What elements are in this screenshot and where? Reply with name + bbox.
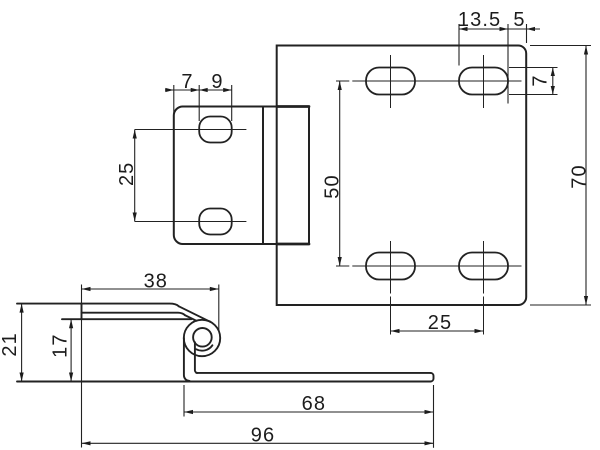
slot big plate top-left [366,68,415,95]
dim 13.5 ext left [458,24,460,66]
centerline big plate top slots horizontal [352,80,521,82]
arrow 70 top [584,46,588,55]
slot big plate bottom-right [459,253,508,280]
dim 70 ext bottom [530,304,591,306]
side bend diagonal middle [185,315,197,321]
curl stem outer line [184,338,190,381]
arrow 50 bottom [338,257,342,266]
dim 17 line [70,319,72,381]
arrow 13.5 left [459,27,468,31]
svg-text:9: 9 [211,71,223,93]
arrow 25 bottom left [391,329,400,333]
arrow 5 outside right [527,27,536,31]
curl outer circle [184,320,220,356]
dim 7-9 ext line left [173,85,175,113]
svg-text:13.5: 13.5 [458,9,501,31]
side strip left end cap [81,304,83,320]
centerline big plate bottom slots horizontal [352,265,521,267]
svg-text:70: 70 [568,164,590,188]
dim 50 line [339,81,341,266]
small plate top edge [183,106,309,108]
svg-text:7: 7 [529,74,551,86]
small plate outline [174,107,183,245]
side top strip bottom line (incl 17 ext) [62,318,191,320]
dim 70 ext top [530,45,591,47]
dim 96 line [82,442,434,444]
dim 38 line [82,288,219,290]
slot big plate bottom-left [366,253,415,280]
small plate right edge [262,107,264,245]
dim 25 bottom line [391,330,484,332]
svg-text:96: 96 [251,425,275,447]
dim 13.5-5 line [459,28,540,30]
big plate outline [277,46,527,306]
arrow 7 right top [551,68,555,77]
arrow 96 left [82,441,91,445]
arrow 50 top [338,81,342,90]
arrow 17 bottom [69,373,73,382]
dim 13.5 ext right [507,24,509,104]
svg-text:21: 21 [0,332,21,356]
dim 7-9 line [165,89,232,91]
dim 7-9 ext line right [231,85,233,121]
slot small plate lower [199,209,232,235]
bottom strip top surface [196,372,430,374]
bottom strip bottom surface (incl 21 ext) [17,381,431,383]
arrow 21 top [20,304,24,313]
arrow 38 left [82,287,91,291]
dim 68 line [184,411,434,413]
dim 38-96 ext left [81,285,83,448]
svg-text:25: 25 [116,162,138,186]
svg-text:38: 38 [144,271,168,293]
side bend diagonal top [179,306,210,321]
centerline big plate bottom-right slot vertical ext [483,297,485,335]
svg-text:50: 50 [321,174,343,198]
slot small plate upper [199,117,232,143]
arrow 25 left bottom [133,213,137,222]
arrow 68 left [184,410,193,414]
notch top edge thick [277,105,309,108]
arrow 9 right [223,88,232,92]
dim 7 right line [552,68,554,95]
centerline big plate top-left slot vertical [390,55,392,108]
dim 38 ext right [218,285,220,331]
notch bottom edge thick [277,243,309,246]
dim 25 left line [134,130,136,222]
arrow 7-9 butterfly left [191,88,200,92]
svg-text:7: 7 [181,71,193,93]
dim 7-9 ext line mid [198,85,200,121]
small plate bottom edge [183,243,309,245]
curl sheet end arc [196,345,212,350]
bottom strip right end cap [431,373,434,382]
centerline big plate top-right slot vertical [483,55,485,108]
curl stem inner line [195,342,198,373]
centerline small plate lower slot [135,221,247,223]
arrow 25 bottom right [475,329,484,333]
dim 7 right ext top [509,67,558,69]
svg-text:68: 68 [302,393,326,415]
arrow 25 left top [133,130,137,139]
dim 68 ext left [183,385,185,417]
centerline big plate top slots horizontal dash [336,80,349,82]
dim 21 line [21,304,23,382]
arrow 13.5 right [500,27,509,31]
centerline big plate bottom slots horizontal dash [336,265,349,267]
dim 68-96 ext right [433,385,435,448]
arrow 38 right [210,287,219,291]
arrow 7-9 butterfly right [199,88,208,92]
arrow 17 top [69,319,73,328]
arrow 7 left outside [165,88,174,92]
side top strip top surface (incl 21 ext) [17,304,179,307]
arrow 70 bottom [584,296,588,305]
arrow 21 bottom [20,373,24,382]
notch rectangle right edge [308,107,310,245]
arrow 96 right [425,441,434,445]
centerline big plate bottom-right slot vertical [483,241,485,294]
svg-text:17: 17 [49,333,71,357]
centerline big plate bottom-left slot vertical ext [390,297,392,335]
svg-text:5: 5 [513,9,525,31]
side top strip middle line [82,313,185,315]
centerline small plate upper slot [135,129,247,131]
hinge pin circle [193,328,212,347]
centerline big plate bottom-left slot vertical [390,241,392,294]
arrow 68 right [425,410,434,414]
arrow 7 right bottom [551,86,555,95]
dim 7 right ext bottom [509,94,558,96]
dim 5 ext right [526,24,528,43]
svg-text:25: 25 [428,312,452,334]
slot big plate top-right [459,68,508,95]
dim 70 line [585,46,587,306]
